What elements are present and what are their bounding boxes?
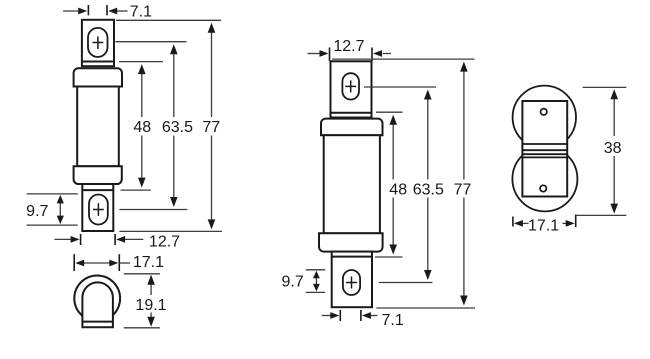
lower tag slot hole bbox=[89, 195, 108, 225]
svg-text:7.1: 7.1 bbox=[130, 4, 152, 21]
top bolt hole bbox=[541, 109, 547, 115]
svg-text:38: 38 bbox=[604, 140, 622, 157]
upper slot cross bbox=[93, 36, 104, 49]
svg-text:48: 48 bbox=[389, 182, 407, 199]
upper slot cross bbox=[345, 80, 356, 92]
bottom bolt hole bbox=[540, 185, 546, 191]
dim 7.1 (middle bottom) bbox=[340, 310, 361, 321]
dim 77 vertical (middle) bbox=[463, 71, 465, 297]
ext line 48 top (middle) bbox=[376, 111, 403, 113]
ext line 77 top bbox=[116, 19, 221, 21]
dim 77 vertical bbox=[211, 32, 213, 221]
dim 17.1 (right) bbox=[513, 215, 576, 228]
dim 63.5 vertical bbox=[173, 53, 175, 198]
dim 63.5 vertical (middle) bbox=[427, 99, 429, 272]
upper tag slot hole bbox=[342, 73, 359, 99]
tag flat rectangle bbox=[522, 101, 567, 197]
dim 17.1 bbox=[74, 254, 119, 271]
svg-text:17.1: 17.1 bbox=[133, 254, 164, 271]
fuse body bbox=[77, 87, 119, 167]
lower slot cross bbox=[346, 277, 357, 289]
lower tag slot hole bbox=[343, 270, 360, 295]
svg-text:63.5: 63.5 bbox=[162, 119, 193, 136]
dim 48 vertical (middle) bbox=[392, 124, 394, 246]
fuse body bbox=[324, 135, 380, 233]
ext line 63.5 bottom bbox=[119, 209, 187, 211]
svg-text:12.7: 12.7 bbox=[149, 234, 180, 251]
upper end cap bbox=[321, 119, 383, 136]
ext line 63.5 bottom (middle) bbox=[379, 282, 433, 284]
upper tag blade bbox=[331, 61, 372, 117]
dim 7.1 arrows bbox=[63, 10, 128, 12]
upper tag blade bbox=[82, 20, 114, 66]
svg-text:77: 77 bbox=[202, 119, 220, 136]
lower slot cross bbox=[93, 203, 104, 216]
ext line 48 bottom bbox=[121, 189, 151, 191]
lower tag blade bbox=[82, 184, 113, 231]
svg-text:63.5: 63.5 bbox=[413, 182, 444, 199]
svg-text:48: 48 bbox=[133, 119, 151, 136]
svg-text:9.7: 9.7 bbox=[26, 203, 48, 220]
svg-text:12.7: 12.7 bbox=[333, 38, 364, 55]
dim 9.7 (middle) bbox=[306, 270, 325, 293]
upper end cap bbox=[74, 68, 122, 86]
dim 12.7 bottom bbox=[81, 234, 116, 245]
ext line 77 bottom (middle) bbox=[376, 307, 475, 309]
ext line 48 bottom (middle) bbox=[375, 256, 403, 258]
svg-text:19.1: 19.1 bbox=[135, 297, 166, 314]
dim 9.7 left bbox=[27, 194, 78, 225]
ext line 77 bottom bbox=[119, 230, 221, 232]
ext line 63.5 top bbox=[116, 41, 187, 43]
ext line 77 top (middle) bbox=[332, 58, 475, 60]
upper tag slot hole bbox=[88, 28, 108, 57]
svg-text:9.7: 9.7 bbox=[281, 273, 303, 290]
lower end cap bbox=[319, 233, 383, 251]
svg-text:17.1: 17.1 bbox=[528, 217, 559, 234]
waist lines bbox=[523, 144, 568, 157]
dim 19.1 bbox=[124, 274, 160, 328]
tag end inner line bbox=[82, 321, 113, 323]
dim 12.7 arrows bbox=[308, 53, 392, 55]
svg-text:7.1: 7.1 bbox=[381, 312, 403, 329]
svg-text:77: 77 bbox=[454, 182, 472, 199]
ext line 48 top bbox=[119, 61, 163, 63]
top ferrule circle bbox=[513, 86, 576, 149]
lower tag blade bbox=[332, 252, 372, 308]
tag end-on arch bbox=[82, 282, 113, 327]
lower end cap bbox=[74, 166, 122, 184]
dim 38 bbox=[576, 87, 627, 215]
ferrule circle bbox=[74, 276, 120, 322]
bottom ferrule circle bbox=[512, 146, 577, 211]
dim 48 vertical bbox=[141, 73, 143, 179]
ext line 63.5 top (middle) bbox=[364, 86, 436, 88]
